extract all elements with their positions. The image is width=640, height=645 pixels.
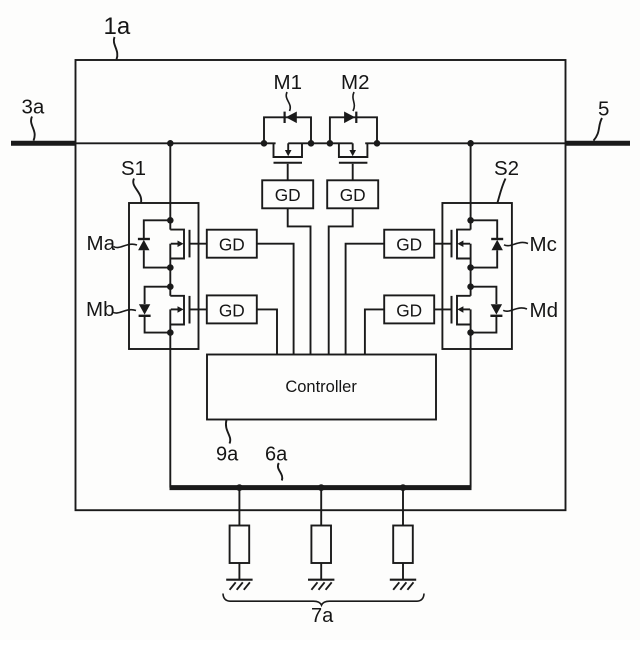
outer box 1a xyxy=(76,60,566,510)
terminal 3a (thick line) xyxy=(11,141,76,146)
gate driver GD for M2 xyxy=(327,180,378,208)
gate driver GD for Mc xyxy=(384,230,434,258)
transistor Mb xyxy=(139,287,207,333)
transistor M2 xyxy=(330,112,377,181)
ground (middle) xyxy=(308,580,334,590)
M2 body arrow (down) xyxy=(352,143,354,151)
label 5 xyxy=(598,98,609,121)
transistor Ma xyxy=(138,220,207,267)
node: Md top xyxy=(467,283,474,290)
node: resistor tap middle xyxy=(318,484,325,491)
Ma gate bar xyxy=(189,230,191,258)
Ma body arrow (right) xyxy=(171,243,179,245)
resistor R3 xyxy=(393,526,413,564)
wire: middle resistor lead xyxy=(320,488,322,526)
Md source/drain cup xyxy=(457,296,471,325)
M1 source/drain cup xyxy=(274,143,303,157)
svg-text:Md: Md xyxy=(530,299,558,322)
Mc body arrow (left) xyxy=(463,243,471,245)
node: Mb bottom xyxy=(167,329,174,336)
svg-text:GD: GD xyxy=(219,300,245,320)
gate driver GD for M1 xyxy=(262,180,313,208)
svg-text:Mb: Mb xyxy=(86,298,114,321)
node: resistor tap right xyxy=(400,484,407,491)
node: M1 right xyxy=(308,140,315,147)
svg-text:7a: 7a xyxy=(311,605,334,627)
diode of Ma (triangle pointing up) xyxy=(138,240,149,250)
Mb body arrow (right) xyxy=(171,308,179,310)
transistor Md xyxy=(434,287,502,333)
svg-text:3a: 3a xyxy=(22,96,45,119)
svg-text:9a: 9a xyxy=(216,444,239,466)
label 3a xyxy=(22,96,45,119)
node: bus junction S1 xyxy=(167,140,174,147)
label 1a xyxy=(104,13,131,40)
leader 1a xyxy=(114,37,118,60)
wire: S1 rail upper xyxy=(169,143,171,229)
label S2 xyxy=(494,157,519,180)
diode of Mb (triangle pointing down) xyxy=(139,304,150,314)
Mc gate bar xyxy=(451,230,453,258)
gate driver GD for Md xyxy=(384,295,434,323)
bus 6a (thick line) xyxy=(170,485,472,490)
diode of M2 (triangle pointing right) xyxy=(344,112,355,124)
diode of Mb (cathode bar) xyxy=(139,315,151,317)
wire: Mc GD output to controller xyxy=(346,244,385,355)
gate driver GD for Ma xyxy=(207,230,257,258)
label M2 xyxy=(341,71,369,94)
svg-text:M1: M1 xyxy=(274,71,302,94)
svg-text:Controller: Controller xyxy=(285,378,357,396)
wire: M1 GD output to controller xyxy=(288,208,311,354)
leader Md xyxy=(503,308,527,311)
Mb gate bar xyxy=(189,296,191,324)
svg-text:GD: GD xyxy=(396,235,422,255)
wire: main bus segment middle xyxy=(288,142,352,144)
svg-text:M2: M2 xyxy=(341,71,369,94)
wire: right resistor to ground xyxy=(402,563,404,580)
wire: left resistor lead xyxy=(238,488,240,526)
Ma gate lead xyxy=(191,243,207,245)
switch block S2 box xyxy=(442,203,512,349)
wire: S2 rail middle xyxy=(470,244,472,296)
leader M2 xyxy=(353,92,354,111)
ground (right) xyxy=(390,580,416,590)
node: bus junction S2 xyxy=(467,140,474,147)
wire: Md diode branch xyxy=(471,287,497,304)
M1 body arrow (down) xyxy=(287,143,289,151)
svg-text:Mc: Mc xyxy=(530,233,557,256)
wire: M2 GD output to controller xyxy=(329,208,353,354)
M1 gate lead xyxy=(287,164,289,181)
svg-text:6a: 6a xyxy=(265,444,288,466)
diode of M2 (cathode bar) xyxy=(355,112,357,123)
Mb gate lead xyxy=(191,308,207,310)
svg-text:GD: GD xyxy=(275,185,301,205)
resistor R1 xyxy=(230,526,250,564)
Mc source/drain cup xyxy=(457,230,471,259)
Md body arrow (left) xyxy=(463,308,471,310)
wire: M2 body-diode loop xyxy=(330,117,377,143)
label 9a xyxy=(216,444,239,466)
resistor R2 xyxy=(311,526,331,564)
wire: Md GD output to controller xyxy=(365,309,384,354)
svg-text:1a: 1a xyxy=(104,13,131,40)
Mc gate lead xyxy=(434,243,450,245)
leader Mb xyxy=(113,310,137,313)
wire: Ma diode branch xyxy=(144,220,171,238)
leader Mc xyxy=(504,242,528,245)
gate driver GD for Mb xyxy=(207,295,257,323)
node: M2 right xyxy=(374,140,381,147)
leader M1 xyxy=(286,92,290,111)
label 7a xyxy=(311,605,334,627)
Md gate bar xyxy=(451,296,453,324)
svg-text:GD: GD xyxy=(340,185,366,205)
svg-text:GD: GD xyxy=(396,300,422,320)
leader S2 xyxy=(498,179,506,203)
wire: Mc diode branch xyxy=(471,220,498,238)
svg-text:GD: GD xyxy=(219,235,245,255)
label M1 xyxy=(274,71,302,94)
svg-text:S1: S1 xyxy=(121,157,146,180)
label 6a xyxy=(265,444,288,466)
wire: left resistor to ground xyxy=(238,563,240,580)
diode of Md (triangle pointing down) xyxy=(491,304,502,314)
leader 6a xyxy=(278,463,282,481)
wire: Mb GD output to controller xyxy=(257,309,277,354)
node: M1 left xyxy=(261,140,268,147)
svg-text:S2: S2 xyxy=(494,157,519,180)
node: Md bottom xyxy=(467,329,474,336)
node: M2 left xyxy=(327,140,334,147)
node: resistor tap left xyxy=(236,484,243,491)
label Ma xyxy=(87,232,116,255)
label S1 xyxy=(121,157,146,180)
wire: middle resistor to ground xyxy=(320,563,322,580)
wire: M1 body-diode loop xyxy=(264,117,311,143)
svg-text:5: 5 xyxy=(598,98,609,121)
Ma source/drain cup xyxy=(170,230,184,259)
ground (left) xyxy=(226,580,252,590)
diode of M1 (cathode bar) xyxy=(284,112,286,123)
Mb source/drain cup xyxy=(170,296,184,325)
label Mc xyxy=(530,233,557,256)
M1 gate bar xyxy=(274,162,303,164)
leader S1 xyxy=(133,179,141,203)
Md gate lead xyxy=(434,308,450,310)
M2 source/drain cup xyxy=(339,143,368,157)
diode of Ma (cathode bar) xyxy=(138,238,150,240)
controller U1 xyxy=(207,355,436,420)
transistor Mc xyxy=(434,220,503,267)
leader Ma xyxy=(114,244,138,247)
node: Mc bottom xyxy=(467,264,474,271)
wire: S1 rail middle xyxy=(169,244,171,296)
svg-text:Ma: Ma xyxy=(87,232,116,255)
wire: main bus segment right xyxy=(365,142,565,144)
node: Mb top xyxy=(167,283,174,290)
transistor M1 xyxy=(264,112,311,181)
wire: right resistor lead xyxy=(402,488,404,526)
diode of M1 (triangle pointing left) xyxy=(286,112,297,124)
leader 3a xyxy=(31,117,35,141)
brace 7a xyxy=(223,594,424,606)
leader 5 xyxy=(594,118,603,141)
diode of Mc (triangle pointing up) xyxy=(492,240,503,250)
node: Ma top xyxy=(167,217,174,224)
wire: S2 rail upper xyxy=(470,143,472,229)
wire: S1 rail lower (down to bus 6a) xyxy=(169,309,171,487)
wire: Ma GD output to controller xyxy=(257,244,294,355)
diode of Md (cathode bar) xyxy=(490,315,502,317)
wire: Mb diode branch xyxy=(145,287,171,304)
node: Ma bottom xyxy=(167,264,174,271)
label Md xyxy=(530,299,558,322)
switch block S1 box xyxy=(129,203,199,349)
node: Mc top xyxy=(467,217,474,224)
diode of Mc (cathode bar) xyxy=(491,238,503,240)
M2 gate bar xyxy=(339,162,368,164)
terminal 5 (thick line) xyxy=(566,141,631,146)
wire: main bus segment left xyxy=(76,142,276,144)
leader 9a xyxy=(226,420,230,444)
label Mb xyxy=(86,298,114,321)
wire: S2 rail lower (down to bus 6a) xyxy=(470,309,472,487)
M2 gate lead xyxy=(352,164,354,181)
